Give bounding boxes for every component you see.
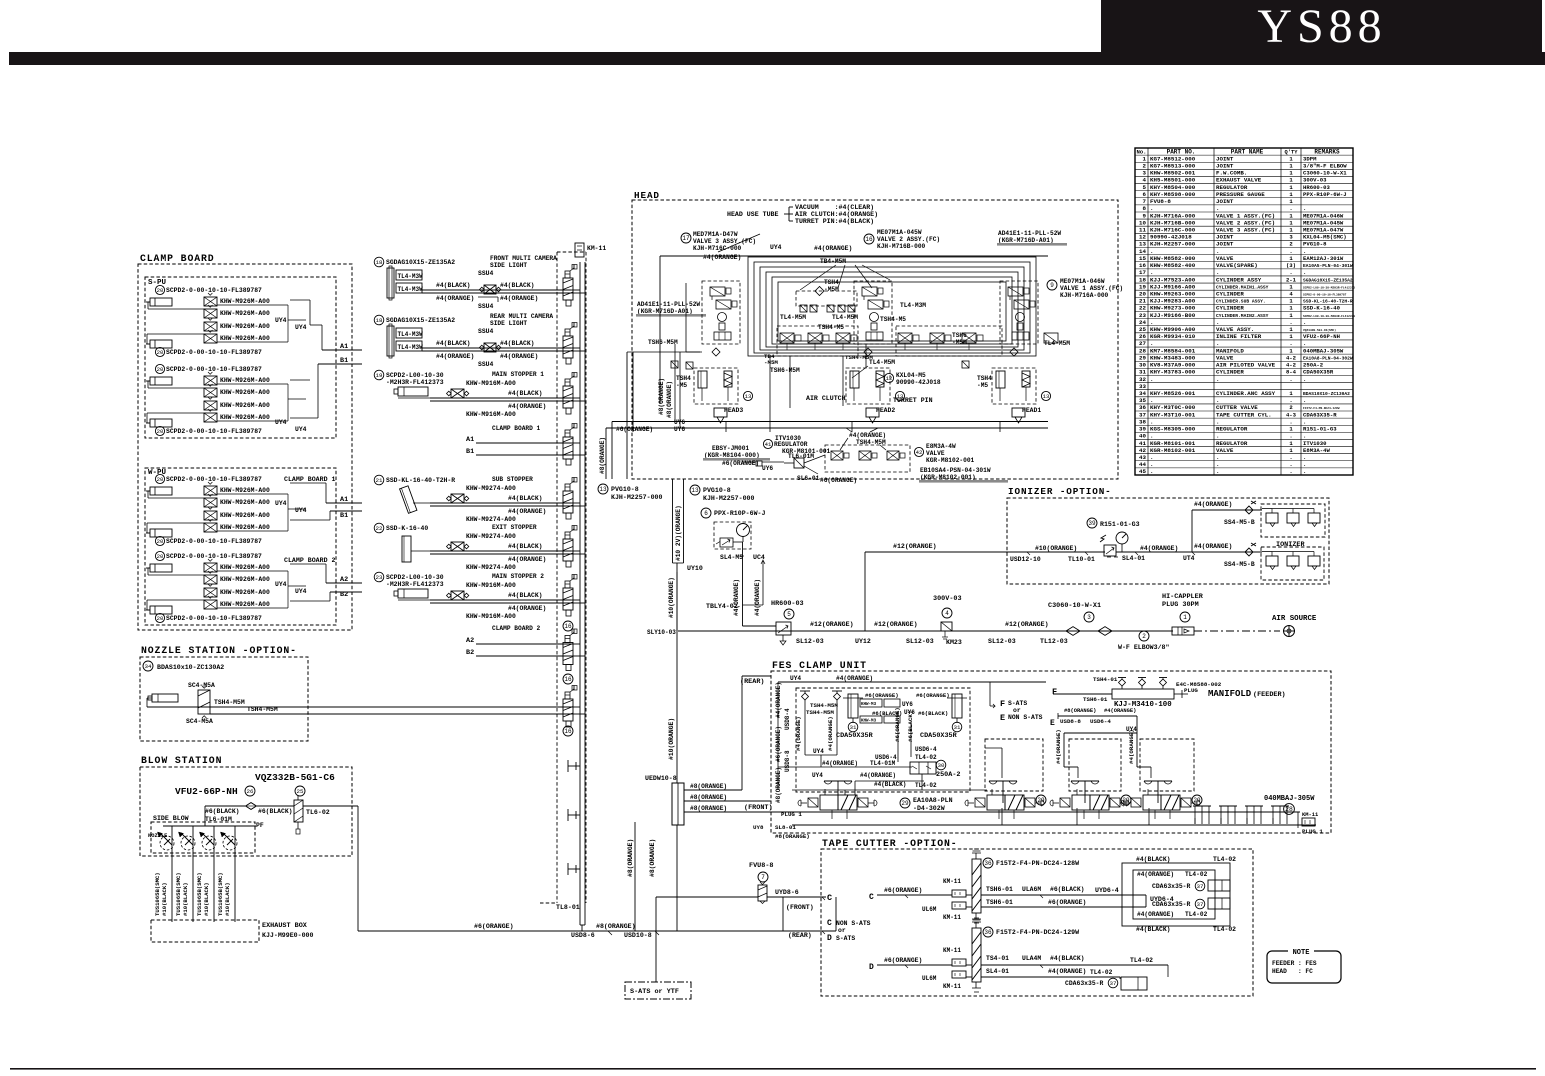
svg-text:#10 2V)(ORANGE): #10 2V)(ORANGE) (675, 505, 682, 561)
air piloted valve 250A-2 (30) (910, 762, 936, 774)
svg-text:.: . (1289, 433, 1292, 440)
svg-text:MANIFOLD: MANIFOLD (1216, 347, 1244, 354)
svg-text:.: . (1216, 340, 1219, 347)
svg-text:VALVE(SPARE): VALVE(SPARE) (1216, 262, 1258, 269)
ionizer element (1287, 556, 1299, 566)
svg-text:34: 34 (1139, 390, 1146, 397)
svg-text:KHW-M9263-000: KHW-M9263-000 (1150, 290, 1196, 297)
svg-text:42: 42 (1139, 447, 1146, 454)
svg-text:35: 35 (1139, 397, 1146, 404)
svg-text:KGS-M8305-000: KGS-M8305-000 (1150, 426, 1196, 433)
fes tee riser left (800, 690, 810, 692)
svg-text:SCPD2-0-00-10-10-FL389787: SCPD2-0-00-10-10-FL389787 (166, 553, 262, 560)
svg-text:KM-11: KM-11 (943, 983, 961, 990)
svg-text:#4(ORANGE): #4(ORANGE) (508, 556, 546, 563)
svg-text:KHW-M3483-000: KHW-M3483-000 (1150, 354, 1196, 361)
svg-text:SC4-M5A: SC4-M5A (188, 682, 215, 689)
svg-text:PLUG 1: PLUG 1 (1302, 828, 1323, 835)
svg-text:.: . (1150, 418, 1153, 425)
svg-text:.: . (1289, 397, 1292, 404)
svg-text:USD8-8: USD8-8 (1060, 718, 1081, 725)
svg-text:.: . (1289, 248, 1292, 255)
svg-text:37: 37 (1110, 980, 1117, 987)
cylinder SCPD2 group S-PU a (155, 285, 164, 294)
svg-text:REGULATOR: REGULATOR (1216, 426, 1248, 433)
svg-text:SCPD2-L00-10-30-M2H3R-FL412373: SCPD2-L00-10-30-M2H3R-FL412373 (1303, 286, 1355, 289)
valve E8M3A (42) (914, 447, 923, 456)
svg-text:FEEDER : FES: FEEDER : FES (1272, 960, 1317, 967)
svg-text:CLAMP BOARD 1: CLAMP BOARD 1 (492, 425, 541, 432)
svg-text:TSH6-01: TSH6-01 (986, 886, 1013, 893)
valve KHW-M926M-A00 W-PU b (204, 563, 217, 572)
svg-text:3: 3 (1143, 170, 1147, 177)
wire E branch 2 (1064, 732, 1137, 734)
svg-text:#6(BLACK): #6(BLACK) (918, 710, 948, 717)
svg-text:MED7M1A-D47W: MED7M1A-D47W (693, 231, 738, 238)
svg-text:EA10A5-PLN-04-301W: EA10A5-PLN-04-301W (1303, 263, 1353, 269)
svg-text:TSH4: TSH4 (977, 375, 992, 382)
svg-text:#4(ORANGE): #4(ORANGE) (1137, 871, 1174, 878)
svg-text:UY4: UY4 (813, 748, 824, 755)
svg-text:#4(ORANGE): #4(ORANGE) (1128, 729, 1135, 764)
svg-text:CYLINDER: CYLINDER (1216, 305, 1244, 312)
svg-text:SCPD2-0-00-10-10-FL389787: SCPD2-0-00-10-10-FL389787 (166, 349, 262, 356)
svg-text:IONIZER -OPTION-: IONIZER -OPTION- (1008, 486, 1112, 497)
svg-text:TUS1065B(SMC): TUS1065B(SMC) (154, 872, 161, 916)
svg-text:.: . (1303, 248, 1306, 255)
svg-text:EBSY-JM001: EBSY-JM001 (712, 445, 749, 452)
svg-text:#8(ORANGE): #8(ORANGE) (690, 794, 727, 801)
valve KHW-M926M-A00 W-PU a (204, 523, 217, 532)
svg-text:SCPD2-0-00-10-10-FL389787: SCPD2-0-00-10-10-FL389787 (166, 366, 262, 373)
svg-text:-M2H3R-FL412373: -M2H3R-FL412373 (386, 581, 444, 588)
svg-text:41: 41 (1139, 440, 1146, 447)
svg-text:(REAR): (REAR) (788, 932, 812, 939)
svg-text:KHW-M9906-A00: KHW-M9906-A00 (1150, 326, 1196, 333)
svg-text:-M5M: -M5M (824, 286, 839, 293)
node B1 (318, 363, 362, 365)
svg-text:SCPD2-0-00-10-10-FL389787: SCPD2-0-00-10-10-FL389787 (166, 538, 262, 545)
svg-text:SCPD2-0-00-10-10-FL389787: SCPD2-0-00-10-10-FL389787 (166, 287, 262, 294)
svg-text:18: 18 (376, 259, 383, 266)
svg-text:TUS1065B(SMC): TUS1065B(SMC) (175, 872, 182, 916)
svg-text:TL6-02: TL6-02 (306, 809, 330, 816)
svg-text:2-1: 2-1 (1286, 276, 1297, 283)
svg-text:HI-CAPPLER: HI-CAPPLER (1162, 593, 1204, 601)
svg-text:25: 25 (297, 788, 304, 795)
svg-text:TL4-M3W: TL4-M3W (398, 331, 424, 338)
inline filter 26 (245, 786, 255, 796)
svg-text:.: . (1303, 340, 1306, 347)
ionizer unit lower box (1261, 547, 1324, 580)
svg-text:.: . (1216, 418, 1219, 425)
svg-text:HEAD : FC: HEAD : FC (1272, 968, 1313, 975)
svg-text:HEAD: HEAD (634, 190, 660, 201)
svg-text:.: . (1289, 269, 1292, 276)
svg-text:NON S-ATS: NON S-ATS (1008, 714, 1043, 721)
svg-text:FES CLAMP UNIT: FES CLAMP UNIT (772, 660, 867, 671)
valve KHW-M926M-A00 W-PU b (204, 575, 217, 584)
svg-text:#4(ORANGE): #4(ORANGE) (1140, 545, 1178, 552)
connector plug (563, 643, 573, 665)
exhaust box (151, 920, 259, 942)
svg-text:UY12: UY12 (855, 638, 871, 645)
svg-text:CLAMP BOARD 1: CLAMP BOARD 1 (284, 476, 335, 483)
svg-text:HR600-03: HR600-03 (771, 600, 804, 608)
svg-text:16: 16 (564, 623, 572, 630)
svg-text:CDA63x35-R: CDA63x35-R (1065, 980, 1104, 987)
valve KHW-M926M-A00 S-PU a (204, 322, 217, 331)
cylinder pair HEAD3 (694, 368, 738, 404)
svg-text:-M2H3R-FL412373: -M2H3R-FL412373 (386, 379, 444, 386)
wire to S-ATS (655, 897, 657, 982)
svg-text:AIR CLUTCH: AIR CLUTCH (806, 395, 846, 402)
svg-text:.: . (1303, 461, 1306, 468)
svg-text:#8(ORANGE): #8(ORANGE) (775, 767, 782, 803)
svg-text:TSH4: TSH4 (824, 279, 839, 286)
svg-text:.: . (1150, 319, 1153, 326)
svg-text:SCPD2-L00-10-30: SCPD2-L00-10-30 (386, 372, 444, 379)
svg-text:-M5: -M5 (676, 382, 687, 389)
svg-text:CDA50X35R: CDA50X35R (1303, 369, 1334, 376)
svg-text:26: 26 (1139, 333, 1146, 340)
svg-text:W-F ELBOW3/8": W-F ELBOW3/8" (1118, 644, 1169, 651)
cylinder pair HEAD1 (992, 368, 1036, 404)
svg-text:F15T2-F4-PN-DC24-128W: F15T2-F4-PN-DC24-128W (1303, 407, 1340, 410)
node A1 (322, 349, 362, 351)
branch to ionizer (864, 552, 866, 631)
svg-text:USD8-8: USD8-8 (784, 750, 791, 772)
svg-text:#4(ORANGE): #4(ORANGE) (703, 254, 741, 261)
svg-text:SSD-K-16-40: SSD-K-16-40 (1303, 305, 1341, 312)
svg-text:6: 6 (1143, 191, 1147, 198)
svg-text:TL4-02: TL4-02 (1185, 871, 1208, 878)
cutter valve D (36) (972, 928, 981, 982)
svg-text:SLY10-03: SLY10-03 (647, 629, 676, 636)
svg-text:300V-03: 300V-03 (1303, 177, 1327, 184)
connector plug (563, 699, 573, 721)
svg-text:KHY-M8598-000: KHY-M8598-000 (1150, 191, 1196, 198)
svg-text:TBLY4-02: TBLY4-02 (706, 603, 738, 610)
svg-text:KHW-M9274-A00: KHW-M9274-A00 (466, 564, 516, 571)
svg-text:CDA63x35-R: CDA63x35-R (1152, 883, 1191, 890)
svg-text:29: 29 (1193, 797, 1201, 804)
svg-text:F: F (1000, 699, 1005, 709)
valve KHW-M926M-A00 S-PU b (204, 388, 217, 397)
svg-text:#6(ORANGE): #6(ORANGE) (1048, 899, 1086, 906)
wire head inner rails (674, 344, 676, 421)
svg-text:SCPD2-0-00-10-10-FL389787: SCPD2-0-00-10-10-FL389787 (166, 476, 262, 483)
svg-text:FVU8-8: FVU8-8 (749, 862, 773, 870)
svg-text:UL6M: UL6M (922, 906, 937, 913)
svg-text:#4(ORANGE): #4(ORANGE) (795, 716, 802, 751)
svg-text:R151-01-G3: R151-01-G3 (1303, 426, 1337, 433)
svg-text:#6(BLACK): #6(BLACK) (1050, 886, 1085, 893)
svg-text:9: 9 (1050, 282, 1054, 289)
svg-text:.: . (1216, 205, 1219, 212)
svg-text:KJH-M716A-000: KJH-M716A-000 (1060, 292, 1109, 299)
head valve row right (896, 326, 1002, 356)
svg-text:25: 25 (1139, 326, 1146, 333)
valve fes 2 (29) (1002, 781, 1004, 803)
connector plug (563, 278, 573, 300)
svg-text:KGR-M8101-001: KGR-M8101-001 (1150, 440, 1196, 447)
bus tap (567, 863, 569, 875)
fes tee riser right (832, 690, 842, 692)
svg-text:KHY-M3T10-001: KHY-M3T10-001 (1150, 411, 1196, 418)
svg-text:C: C (869, 893, 874, 902)
svg-text:VFU2-66P-NH: VFU2-66P-NH (175, 786, 238, 797)
connector plug (563, 588, 573, 610)
svg-text:6: 6 (704, 510, 708, 517)
svg-text:USD8-6: USD8-6 (571, 932, 595, 939)
svg-text:KHY-M8526-001: KHY-M8526-001 (1150, 390, 1196, 397)
svg-text:.: . (1216, 319, 1219, 326)
svg-text:or: or (1013, 707, 1021, 714)
svg-text:22: 22 (1139, 305, 1146, 312)
svg-text:KM-11: KM-11 (943, 947, 961, 954)
svg-text:(KGR-M8102-001): (KGR-M8102-001) (920, 474, 976, 481)
svg-text:REGULATOR: REGULATOR (1216, 184, 1248, 191)
svg-text:KJH-M2257-000: KJH-M2257-000 (611, 494, 662, 501)
svg-text:15: 15 (1139, 255, 1146, 262)
svg-text:#6(ORANGE): #6(ORANGE) (722, 460, 759, 467)
svg-text:REGULATOR: REGULATOR (774, 441, 808, 448)
svg-text:KHW-M926M-A00: KHW-M926M-A00 (220, 402, 270, 409)
svg-text:SL12-03: SL12-03 (796, 638, 824, 645)
svg-text:VALVE 3 ASSY.(FC): VALVE 3 ASSY.(FC) (1216, 227, 1275, 234)
svg-text:SSD-K-16-40: SSD-K-16-40 (386, 525, 428, 532)
svg-text:SC4-M5A: SC4-M5A (186, 718, 213, 725)
svg-text:KHW-M916M-A00: KHW-M916M-A00 (466, 613, 516, 620)
svg-text:#6(ORANGE): #6(ORANGE) (884, 887, 922, 894)
svg-text:.: . (1303, 205, 1306, 212)
svg-text:-M5M: -M5M (764, 359, 778, 366)
svg-text:.: . (1150, 433, 1153, 440)
fes top wire (778, 681, 1046, 683)
svg-text:SSD-KL-16-40-T2H-R: SSD-KL-16-40-T2H-R (1303, 299, 1353, 305)
svg-text:MANIFOLD: MANIFOLD (1208, 689, 1252, 699)
svg-text:VALVE: VALVE (926, 450, 945, 457)
svg-text:CDA50X35R: CDA50X35R (920, 732, 958, 740)
svg-text:SSU4: SSU4 (478, 328, 494, 335)
svg-text:KJJ-M9166-B00: KJJ-M9166-B00 (1150, 312, 1196, 319)
valve KHW-M926M-A00 S-PU a (204, 297, 217, 306)
svg-text:USD8-4: USD8-4 (784, 708, 791, 730)
head valve row left (777, 326, 858, 356)
svg-text:#10(BLACK): #10(BLACK) (161, 882, 168, 916)
svg-text:16: 16 (564, 728, 572, 735)
svg-text:#8(ORANGE): #8(ORANGE) (666, 381, 673, 418)
svg-text:CLAMP BOARD: CLAMP BOARD (140, 253, 215, 264)
svg-text:#4(ORANGE): #4(ORANGE) (827, 716, 834, 751)
cylinder SCPD2 group W-PU b (155, 551, 164, 560)
svg-text:ME07M1A-046W: ME07M1A-046W (1060, 278, 1105, 285)
svg-text:E: E (1050, 719, 1055, 728)
svg-text:SSD-KL-16-40-T2H-R: SSD-KL-16-40-T2H-R (386, 477, 455, 484)
svg-text:E8M3A-4W: E8M3A-4W (1303, 447, 1330, 454)
svg-text:CUTTER VALVE: CUTTER VALVE (1216, 404, 1258, 411)
svg-text:23: 23 (1139, 312, 1146, 319)
svg-text:EB10SA4-PSN-04-301W: EB10SA4-PSN-04-301W (920, 467, 991, 474)
svg-text:BLOW STATION: BLOW STATION (141, 755, 222, 766)
svg-text:UEDW10-8: UEDW10-8 (645, 775, 677, 782)
svg-text:.: . (1303, 269, 1306, 276)
svg-text:VALVE: VALVE (1216, 255, 1234, 262)
svg-text:SL6-01: SL6-01 (797, 475, 820, 482)
svg-text:HEAD2: HEAD2 (876, 407, 895, 414)
elbow 2 (1139, 631, 1149, 641)
svg-text:KJJ-M7523-A00: KJJ-M7523-A00 (1150, 276, 1196, 283)
svg-text:#4(ORANGE): #4(ORANGE) (849, 432, 886, 439)
svg-text:.: . (1303, 468, 1306, 475)
svg-text:CLAMP BOARD 2: CLAMP BOARD 2 (492, 625, 541, 632)
valve KHW-M926M-A00 W-PU a (204, 511, 217, 520)
svg-text:UY6: UY6 (902, 701, 913, 708)
svg-text:20: 20 (157, 287, 164, 294)
svg-text:#4(BLACK): #4(BLACK) (500, 282, 535, 289)
svg-text:SSU4: SSU4 (478, 303, 494, 310)
svg-text:26: 26 (247, 788, 254, 795)
svg-text:#4(ORANGE): #4(ORANGE) (1194, 501, 1232, 508)
svg-text:-M5M: -M5M (952, 339, 967, 346)
svg-text:.: . (1303, 376, 1306, 383)
valve KHW-M926M-A00 W-PU b (204, 588, 217, 597)
svg-text:.: . (1289, 376, 1292, 383)
svg-text:8: 8 (1143, 205, 1147, 212)
svg-text:VALVE 1 ASSY.(FC): VALVE 1 ASSY.(FC) (1216, 212, 1275, 219)
cylinder SCPD2 group W-PU a (155, 474, 164, 483)
svg-text:TL4-01M: TL4-01M (870, 760, 896, 767)
svg-text:KHW-M926M-A00: KHW-M926M-A00 (220, 310, 270, 317)
svg-text:UY4: UY4 (770, 244, 782, 251)
svg-text:TL4-02: TL4-02 (915, 754, 937, 761)
svg-text:TURRET PIN:#4(BLACK): TURRET PIN:#4(BLACK) (795, 218, 874, 225)
svg-text:11: 11 (1139, 227, 1146, 234)
ionizer unit upper box (1261, 504, 1325, 537)
svg-text:#6(BLACK): #6(BLACK) (205, 808, 240, 815)
svg-text:PLUG 30PM: PLUG 30PM (1162, 601, 1199, 609)
svg-text:13: 13 (599, 486, 607, 493)
svg-text:VQZ332B-5G1-C6(SMC): VQZ332B-5G1-C6(SMC) (1303, 328, 1336, 332)
svg-text:BDAS10x10-ZC130A2: BDAS10x10-ZC130A2 (157, 664, 224, 671)
svg-text:42: 42 (916, 449, 923, 456)
wire #8 branches (684, 789, 742, 791)
svg-text:.: . (1216, 269, 1219, 276)
svg-text:VALVE: VALVE (1216, 447, 1234, 454)
svg-text:UY4: UY4 (275, 581, 287, 588)
filter diamond (246, 803, 257, 810)
joint PVG10-8 (13) left (598, 484, 608, 494)
node 16 markers (563, 621, 573, 631)
svg-text:9: 9 (1143, 212, 1147, 219)
svg-text:.: . (1303, 433, 1306, 440)
svg-text:#4(ORANGE): #4(ORANGE) (508, 508, 546, 515)
svg-text:UY4: UY4 (275, 500, 287, 507)
svg-text:KHW-M916M-A00: KHW-M916M-A00 (466, 582, 516, 589)
svg-text:.: . (1216, 468, 1219, 475)
svg-text:KHW-M916M-A00: KHW-M916M-A00 (466, 411, 516, 418)
svg-text:MAIN STOPPER 2: MAIN STOPPER 2 (492, 573, 544, 580)
svg-text:.: . (1150, 397, 1153, 404)
svg-text:KHW-M926M-A00: KHW-M926M-A00 (220, 377, 270, 384)
svg-text:D: D (827, 934, 832, 943)
svg-text:F: F (1052, 687, 1057, 697)
svg-text:#8(ORANGE): #8(ORANGE) (690, 783, 727, 790)
svg-text:ME07M1A-047W: ME07M1A-047W (1303, 227, 1344, 234)
wire C lines (877, 894, 952, 896)
svg-text:KH5-M8501-000: KH5-M8501-000 (1150, 177, 1196, 184)
wire sub-box drops (1150, 767, 1152, 778)
svg-text:.: . (1150, 248, 1153, 255)
svg-text:#10(BLACK): #10(BLACK) (224, 882, 231, 916)
fes wires inner (778, 766, 912, 768)
svg-text:(KGR-M8104-000): (KGR-M8104-000) (704, 452, 760, 459)
svg-text:ME07M1A-046W: ME07M1A-046W (1303, 212, 1344, 219)
nozzle 1 (171, 826, 173, 922)
ionizer element (1287, 513, 1299, 523)
svg-text:TS4-01: TS4-01 (986, 955, 1009, 962)
svg-text:TSH6-M5M: TSH6-M5M (770, 367, 800, 374)
svg-text:37: 37 (1139, 411, 1146, 418)
svg-text:CYLINDER ASSY: CYLINDER ASSY (1216, 276, 1262, 283)
manifold feeder (1112, 689, 1174, 699)
node A2 (290, 563, 326, 565)
svg-text:EAM12AJ-301W: EAM12AJ-301W (1303, 255, 1344, 262)
valve fes 3 (29) (1084, 781, 1086, 803)
wire nozzle to connector (147, 697, 152, 699)
svg-text:VALVE 2 ASSY.(FC): VALVE 2 ASSY.(FC) (877, 236, 940, 243)
svg-text:CYLINDER.ANC ASSY: CYLINDER.ANC ASSY (1216, 390, 1276, 397)
svg-text:24: 24 (1139, 319, 1146, 326)
svg-text:PVG10-8: PVG10-8 (611, 486, 639, 493)
label valve3 assy (17) (681, 233, 691, 243)
svg-text:C: C (827, 919, 832, 928)
diamond check HEAD2 (864, 348, 872, 356)
ionizer element (1266, 556, 1278, 566)
svg-text:CYLINDER.MAIN1.ASSY: CYLINDER.MAIN1.ASSY (1216, 284, 1269, 290)
svg-text:20: 20 (157, 538, 164, 545)
cylinder main stopper 2 (23) (374, 572, 384, 582)
svg-text:KHY-M3783-000: KHY-M3783-000 (1150, 369, 1196, 376)
svg-text:SCPD2-0-00-10-10-FL389787: SCPD2-0-00-10-10-FL389787 (166, 615, 262, 622)
head funnel HEAD1 (1012, 408, 1025, 417)
svg-text:30: 30 (1139, 362, 1146, 369)
cylinder pair HEAD2 (846, 368, 890, 404)
head nest wires (660, 255, 1048, 257)
svg-text:MAIN STOPPER 1: MAIN STOPPER 1 (492, 371, 544, 378)
svg-text:B2: B2 (466, 649, 474, 657)
svg-text:34: 34 (145, 663, 152, 670)
svg-text:36: 36 (1139, 404, 1146, 411)
svg-text:#6(ORANGE): #6(ORANGE) (865, 692, 899, 699)
svg-text:39: 39 (1088, 520, 1096, 527)
svg-text:PPX-R10P-6W-J: PPX-R10P-6W-J (714, 510, 765, 517)
manifold comb (1193, 805, 1211, 807)
svg-text:#6(ORANGE): #6(ORANGE) (916, 692, 950, 699)
svg-text:TL4-02: TL4-02 (1185, 911, 1208, 918)
svg-text:USD6-4: USD6-4 (915, 746, 937, 753)
svg-text:TL4-M5M: TL4-M5M (780, 314, 806, 321)
bottom rule (10, 1068, 1536, 1070)
svg-text:040MBAJ-305W: 040MBAJ-305W (1303, 347, 1344, 354)
svg-text:17: 17 (682, 235, 690, 242)
svg-text:KM7-M8584-001: KM7-M8584-001 (1150, 347, 1196, 354)
camera light cylinder 18a (374, 257, 384, 267)
svg-text:28: 28 (1139, 347, 1146, 354)
svg-text:TAPE CUTTER -OPTION-: TAPE CUTTER -OPTION- (822, 838, 958, 849)
svg-text:20: 20 (1139, 290, 1146, 297)
